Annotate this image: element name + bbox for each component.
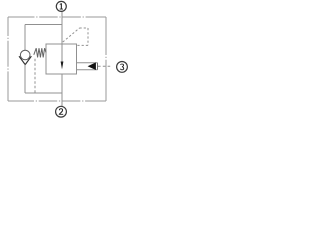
spring drain pilot line (dashed) [34, 59, 36, 93]
pilot line to port 3 (dashed) [98, 65, 111, 67]
wire port2 vertical [61, 74, 63, 106]
pilot piston channel bottom [77, 69, 98, 71]
cartridge boundary left edge (dash-dot) [7, 17, 9, 101]
pilot piston (filled triangle) [88, 62, 96, 70]
cartridge boundary bottom edge (dash-dot) [8, 100, 106, 102]
port 1 symbol [56, 1, 66, 11]
wire top branch horizontal [25, 24, 62, 26]
wire port1 vertical [61, 12, 63, 44]
cartridge boundary right edge (dash-dot) [105, 17, 107, 101]
pilot line horizontal top (dashed) [80, 27, 89, 29]
port 2 symbol [56, 106, 67, 117]
wire check-valve branch vertical lower [24, 65, 26, 93]
pilot piston channel right end [97, 63, 99, 70]
pilot line into envelope end (dashed) [77, 44, 88, 46]
cartridge boundary top edge (dash-dot) [8, 16, 106, 18]
pilot piston channel top [77, 62, 98, 64]
valve main envelope [46, 44, 77, 74]
spring [34, 48, 46, 57]
check valve CV ball [20, 50, 30, 60]
check valve CV seat [19, 56, 31, 64]
wire check-valve branch vertical upper [24, 25, 26, 51]
pilot line vertical (dashed) [87, 28, 89, 45]
port 3 symbol [117, 62, 128, 73]
pilot line from port1: diagonal (dashed) [63, 28, 80, 42]
valve flow arrow (normally closed poppet) [61, 44, 63, 62]
wire bottom junction horizontal [25, 92, 62, 94]
